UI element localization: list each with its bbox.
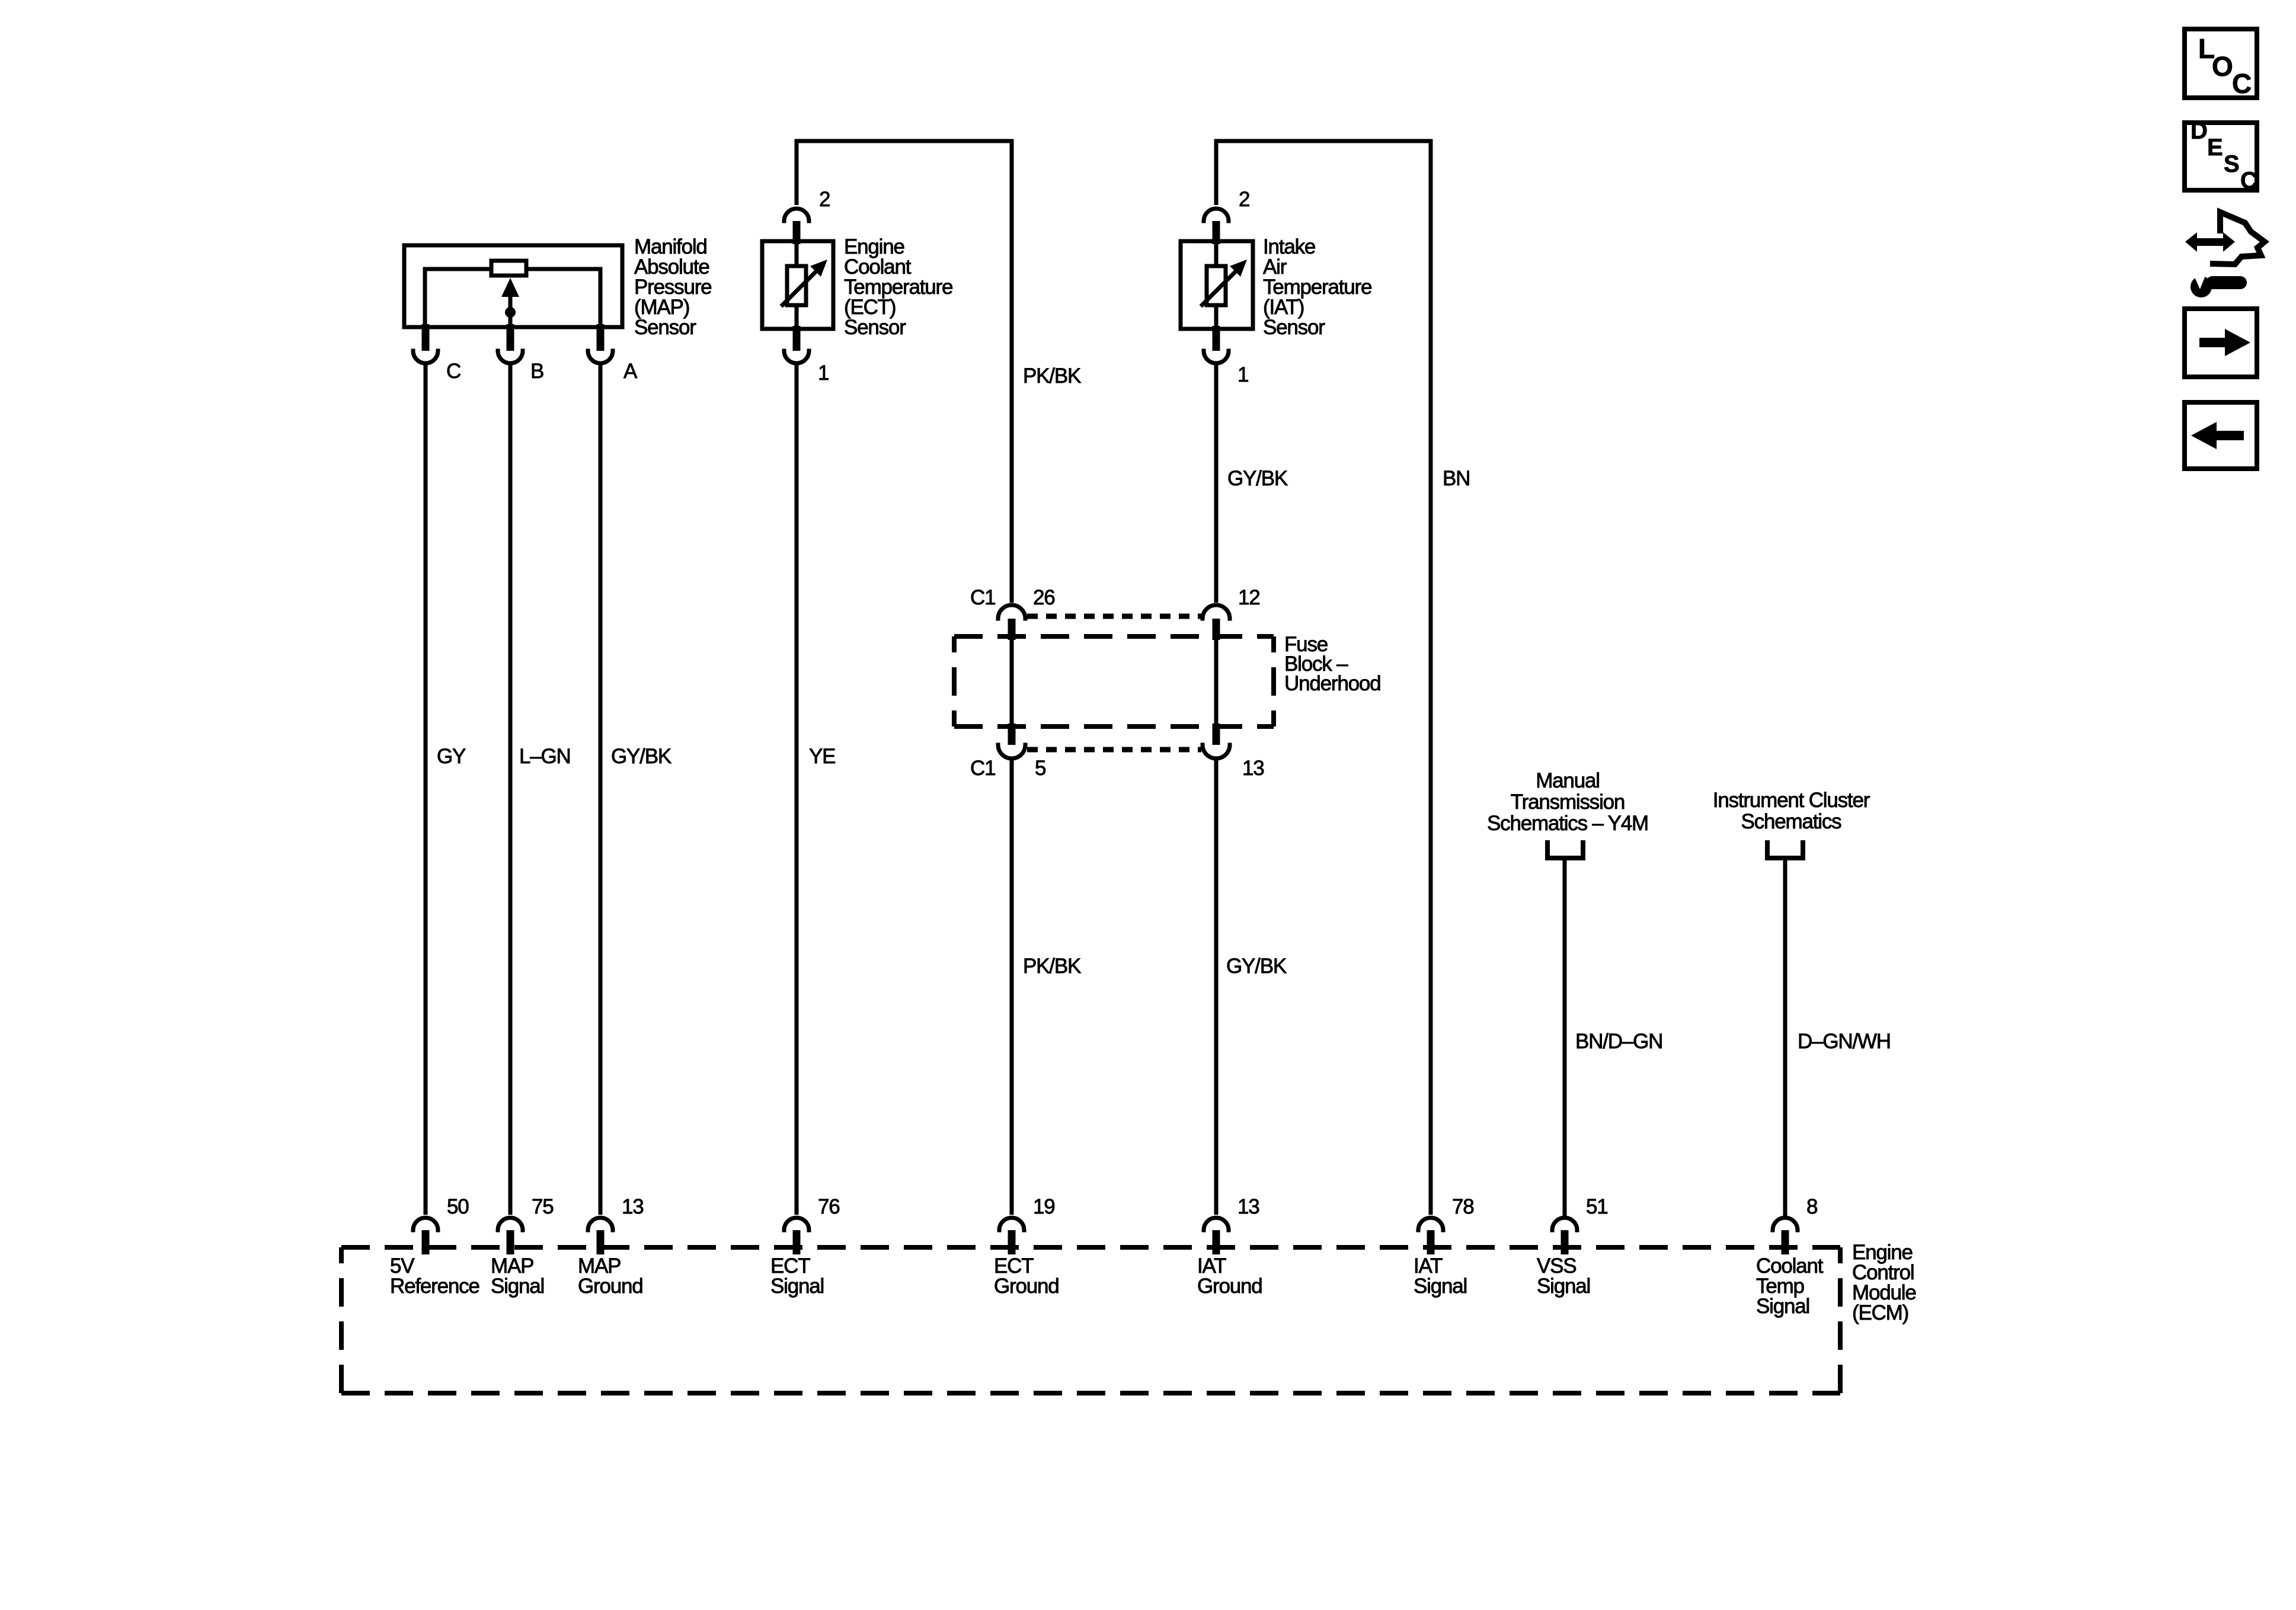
IAT thermistor arrow <box>1201 270 1237 306</box>
wire D-GN/WH coolant temp signal <box>1783 858 1787 1216</box>
svg-text:GY: GY <box>437 745 466 768</box>
fuse block bottom dotted bus <box>1027 747 1201 753</box>
svg-text:13: 13 <box>622 1195 644 1218</box>
svg-text:Underhood: Underhood <box>1284 672 1380 695</box>
svg-text:E: E <box>2207 135 2223 161</box>
fuse block pin C1 5 connector <box>970 724 1045 780</box>
ECM signal label Coolant Temp Signal <box>1756 1254 1824 1318</box>
svg-text:2: 2 <box>1239 188 1249 211</box>
ECM pin 76 connector <box>784 1195 840 1254</box>
ECM pin 8 connector <box>1773 1195 1817 1254</box>
fuse block internal wire left <box>1010 638 1014 725</box>
svg-text:5: 5 <box>1035 757 1045 780</box>
svg-text:Manual: Manual <box>1536 769 1600 792</box>
ECM signal label ECT Signal <box>770 1254 824 1298</box>
wire GY/BK MAP ground <box>599 365 603 1215</box>
MAP pin A connector <box>588 324 638 383</box>
svg-text:C1: C1 <box>970 757 995 780</box>
MAP sensor label <box>634 235 711 339</box>
ECM pin 50 connector <box>413 1195 469 1254</box>
ECM pin 75 connector <box>498 1195 554 1254</box>
svg-text:PK/BK: PK/BK <box>1023 364 1081 388</box>
IAT thermistor resistor <box>1207 266 1226 305</box>
wire GY 5V reference <box>424 365 428 1215</box>
svg-text:L–GN: L–GN <box>519 745 571 768</box>
fuse block label <box>1284 633 1380 695</box>
ECM pin 78 connector <box>1418 1195 1474 1254</box>
svg-text:Ground: Ground <box>578 1275 643 1298</box>
icon forward arrow box <box>2185 309 2257 377</box>
off-page ref Manual Transmission label <box>1487 769 1648 835</box>
ECM dashed box <box>341 1247 1840 1393</box>
svg-text:C: C <box>2240 168 2257 194</box>
svg-text:1: 1 <box>1237 363 1248 386</box>
svg-text:76: 76 <box>818 1195 840 1218</box>
svg-text:2: 2 <box>819 188 830 211</box>
ECT sensor box <box>762 241 833 329</box>
ECM signal label IAT Signal <box>1414 1254 1467 1298</box>
ECM signal label MAP Ground <box>578 1254 643 1298</box>
wire YE ECT signal <box>795 365 799 1215</box>
MAP potentiometer resistor R <box>491 261 526 276</box>
ECM signal label 5V Reference <box>390 1254 479 1298</box>
MAP pin C connector <box>413 324 461 383</box>
ECT thermistor arrow <box>781 270 818 306</box>
svg-text:GY/BK: GY/BK <box>1227 467 1288 490</box>
ECM pin 13 MAP ground connector <box>588 1195 644 1254</box>
wire L-GN MAP signal <box>509 365 513 1215</box>
svg-text:78: 78 <box>1452 1195 1474 1218</box>
icon DESC box <box>2185 118 2257 194</box>
IAT pin 2 connector <box>1204 188 1249 244</box>
svg-text:51: 51 <box>1586 1195 1608 1218</box>
svg-text:B: B <box>530 360 543 383</box>
svg-text:BN: BN <box>1443 467 1470 490</box>
svg-text:Sensor: Sensor <box>1263 316 1325 339</box>
svg-text:C: C <box>446 360 461 383</box>
svg-text:Sensor: Sensor <box>634 316 696 339</box>
fuse block pin 12 connector <box>1203 586 1260 640</box>
MAP wiper junction dot <box>505 307 516 318</box>
svg-text:D–GN/WH: D–GN/WH <box>1798 1030 1891 1053</box>
svg-text:13: 13 <box>1242 757 1264 780</box>
svg-text:Schematics: Schematics <box>1741 810 1842 833</box>
ECT thermistor resistor <box>787 266 806 305</box>
ECM signal label ECT Ground <box>994 1254 1059 1298</box>
ECT sensor label <box>844 235 952 339</box>
svg-text:Reference: Reference <box>390 1275 479 1298</box>
svg-text:Sensor: Sensor <box>844 316 906 339</box>
fuse block dashed box <box>954 636 1274 726</box>
icon hotlink double arrow <box>2195 238 2225 246</box>
ECM pin 13 IAT ground connector <box>1204 1195 1259 1254</box>
svg-text:26: 26 <box>1033 586 1055 609</box>
MAP wiper arrow <box>509 293 513 327</box>
fuse block pin 13 connector <box>1203 724 1264 780</box>
IAT pin 1 connector <box>1204 326 1248 386</box>
ECM signal label MAP Signal <box>491 1254 544 1298</box>
svg-text:Instrument Cluster: Instrument Cluster <box>1713 789 1870 812</box>
icon hotlink vehicle outline <box>2185 212 2265 297</box>
wire BN/D-GN VSS signal <box>1563 858 1567 1216</box>
svg-text:Signal: Signal <box>1537 1275 1590 1298</box>
svg-text:YE: YE <box>809 745 835 768</box>
wire GY/BK IAT ground upper <box>1214 365 1219 603</box>
fuse block internal wire right <box>1214 638 1219 725</box>
svg-text:C1: C1 <box>970 586 995 609</box>
ECT pin 2 connector <box>784 188 830 244</box>
svg-text:Signal: Signal <box>491 1275 544 1298</box>
icon hotlink wrench <box>2191 276 2212 297</box>
MAP potentiometer body <box>425 269 600 327</box>
off-page ref bracket VSS <box>1547 840 1583 858</box>
fuse block pin C1 26 connector <box>970 586 1055 640</box>
svg-text:Schematics – Y4M: Schematics – Y4M <box>1487 812 1648 835</box>
svg-text:GY/BK: GY/BK <box>611 745 671 768</box>
svg-text:Ground: Ground <box>1197 1275 1262 1298</box>
svg-text:S: S <box>2224 151 2240 177</box>
off-page ref bracket Instrument Cluster <box>1767 840 1803 858</box>
svg-text:Ground: Ground <box>994 1275 1059 1298</box>
ECM signal label IAT Ground <box>1197 1254 1262 1298</box>
MAP pin B connector <box>498 324 543 383</box>
svg-text:BN/D–GN: BN/D–GN <box>1575 1030 1662 1053</box>
ECM pin 19 connector <box>999 1195 1055 1254</box>
icon LOC box <box>2185 29 2257 99</box>
IAT sensor box <box>1181 241 1253 329</box>
icon back arrow box <box>2185 402 2257 469</box>
svg-text:D: D <box>2191 118 2208 144</box>
ECT pin 1 connector <box>784 326 829 385</box>
ECM pin 51 connector <box>1552 1195 1608 1254</box>
IAT sensor top loop wire <box>1216 141 1431 1215</box>
IAT sensor label <box>1263 235 1371 339</box>
svg-text:C: C <box>2232 68 2252 99</box>
off-page ref Instrument Cluster label <box>1713 789 1870 833</box>
svg-text:PK/BK: PK/BK <box>1023 955 1081 978</box>
svg-text:75: 75 <box>532 1195 554 1218</box>
svg-text:19: 19 <box>1033 1195 1055 1218</box>
svg-text:Signal: Signal <box>1414 1275 1467 1298</box>
ECM signal label VSS Signal <box>1537 1254 1590 1298</box>
svg-text:12: 12 <box>1238 586 1260 609</box>
svg-text:Signal: Signal <box>770 1275 824 1298</box>
svg-text:(ECM): (ECM) <box>1852 1301 1908 1324</box>
svg-text:Signal: Signal <box>1756 1295 1809 1318</box>
ECT sensor top loop wire <box>797 141 1012 603</box>
svg-text:GY/BK: GY/BK <box>1226 955 1287 978</box>
svg-text:13: 13 <box>1237 1195 1259 1218</box>
fuse block top dotted bus <box>1027 614 1201 619</box>
wire GY/BK IAT ground lower <box>1214 760 1219 1215</box>
svg-text:O: O <box>2212 51 2233 82</box>
wire PK/BK ECT ground lower <box>1010 760 1014 1215</box>
svg-text:Transmission: Transmission <box>1511 790 1625 814</box>
svg-text:8: 8 <box>1806 1195 1817 1218</box>
svg-text:1: 1 <box>818 361 829 385</box>
svg-text:A: A <box>623 360 638 383</box>
ECM module label <box>1852 1241 1916 1324</box>
svg-text:50: 50 <box>447 1195 469 1218</box>
MAP sensor outer box <box>404 245 622 327</box>
